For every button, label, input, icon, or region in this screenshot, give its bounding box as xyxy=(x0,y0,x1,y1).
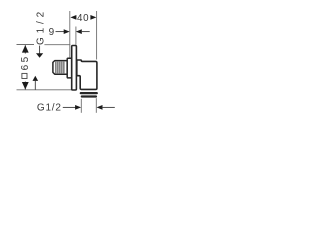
svg-text:9: 9 xyxy=(49,27,55,38)
leader right tail xyxy=(102,106,115,108)
extension line hose nut left (G1/2) xyxy=(80,99,82,113)
extension line bottom (escutcheon bottom, dim 65) xyxy=(17,89,72,91)
dimension 65 line upper stub xyxy=(24,45,26,53)
thread hatch lines xyxy=(56,62,64,74)
dimension 9 arrowhead left-pointing xyxy=(76,29,82,34)
hose connection ring 2 (G1/2 nut) xyxy=(81,95,97,97)
dimension 65 arrowhead up xyxy=(22,45,29,53)
escutcheon plate (square 65, side view) xyxy=(72,46,77,91)
orientation arrow up xyxy=(34,81,36,90)
dimension 65 line lower stub xyxy=(24,82,26,90)
extension line hose nut right (G1/2) xyxy=(95,98,97,113)
leader arrowhead left-pointing xyxy=(97,105,103,110)
dimension 40 arrowhead left xyxy=(70,15,76,20)
wire wall plane extension line xyxy=(69,11,71,59)
dimension 9 right tail xyxy=(81,31,90,33)
leader arrowhead right-pointing xyxy=(75,105,81,110)
svg-text:G1/2: G1/2 xyxy=(37,103,62,114)
extension line escutcheon front (dim 9) xyxy=(75,27,77,45)
svg-text:65: 65 xyxy=(20,54,31,70)
svg-text:40: 40 xyxy=(77,13,89,24)
dimension 9 arrowhead right-pointing xyxy=(64,29,70,34)
elbow body outline xyxy=(77,60,97,89)
dimension 9 left tail xyxy=(56,31,65,33)
leader tail G1/2 hose xyxy=(63,106,77,108)
nipple flange nut xyxy=(67,58,72,78)
dimension 65 arrowhead down xyxy=(22,82,29,90)
leader line G1/2 wall thread xyxy=(39,46,41,54)
svg-text:G1/2: G1/2 xyxy=(35,8,46,45)
extension line body front (dim 40) xyxy=(96,11,98,60)
dimension 40 arrowhead right xyxy=(90,15,96,20)
leader arrowhead down xyxy=(36,53,43,57)
extension line top (escutcheon top, dim 65) xyxy=(17,44,35,46)
hose connection ring 1 xyxy=(80,92,98,94)
value label square 65 (rotated) xyxy=(20,54,31,78)
wall thread nipple G1/2 xyxy=(53,61,67,75)
